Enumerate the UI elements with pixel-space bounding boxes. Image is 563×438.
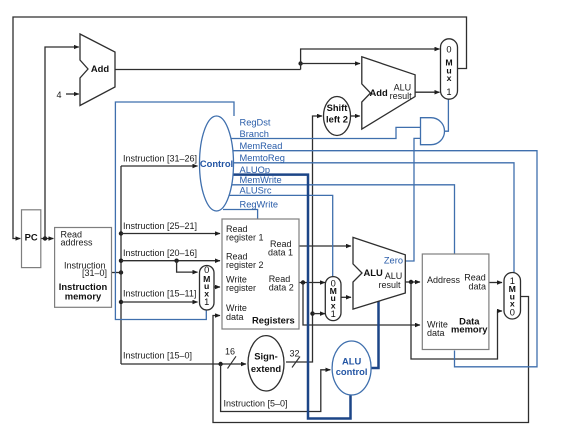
svg-text:result: result [390, 91, 413, 101]
wire RegDst mux output to Write register [214, 286, 220, 288]
wire ALUSrc mux output to ALU [342, 296, 352, 298]
mux M3 (RegDst) [200, 266, 215, 311]
svg-text:x: x [447, 73, 452, 83]
svg-text:1: 1 [446, 87, 451, 97]
wire Read data 1 to ALU input [299, 245, 351, 247]
adder Add (PC+4) [80, 34, 115, 106]
svg-text:Instruction [31–26]: Instruction [31–26] [123, 154, 197, 164]
svg-text:Instruction [15–11]: Instruction [15–11] [123, 289, 196, 299]
svg-text:0: 0 [446, 45, 451, 55]
svg-text:Registers: Registers [252, 315, 295, 326]
wire RegDst control loop to mux select [115, 102, 234, 320]
svg-text:32: 32 [290, 349, 300, 359]
wire Add output (PC+4) to branch adder top input [115, 69, 301, 71]
wire Read data 2 to ALUSrc mux input 0 [299, 282, 325, 284]
oval Sign-extend [248, 336, 284, 391]
wire ALU control output to ALU (thick) [371, 301, 379, 368]
svg-text:Branch: Branch [240, 129, 269, 139]
svg-text:data 1: data 1 [268, 248, 293, 258]
svg-text:Zero: Zero [384, 256, 403, 266]
wire ALUSrc control to mux select [228, 195, 333, 277]
node PC output junction [43, 236, 47, 240]
wire MemtoReg mux output back to Registers Write data [213, 297, 529, 423]
svg-text:result: result [379, 280, 402, 290]
box instruction memory [55, 228, 112, 308]
svg-text:Shift: Shift [327, 102, 348, 113]
wire branch adder result to top mux input 1 [415, 91, 439, 93]
svg-text:PC: PC [25, 232, 38, 243]
wire RegWrite control to Registers [223, 210, 258, 219]
svg-text:control: control [336, 366, 368, 377]
svg-text:left 2: left 2 [326, 114, 348, 125]
svg-text:Add: Add [91, 63, 109, 74]
box Data memory [422, 254, 489, 350]
wire ALUOp control to ALU control (thick) [231, 175, 351, 419]
wire Data memory Read data to MemtoReg mux input 1 [489, 282, 502, 284]
svg-text:Add: Add [370, 87, 388, 98]
svg-text:ALUSrc: ALUSrc [240, 186, 272, 196]
wire Instruction[25-21] to Read register 1 [121, 233, 220, 235]
svg-text:memory: memory [65, 291, 102, 302]
svg-text:extend: extend [251, 363, 281, 374]
svg-text:[31–0]: [31–0] [82, 268, 107, 278]
svg-text:address: address [61, 237, 94, 247]
node bus tap 20-16 [119, 259, 123, 263]
gate AND [421, 118, 445, 145]
svg-text:1: 1 [204, 297, 209, 307]
mux M4 (MemtoReg) [504, 273, 521, 320]
wire PC+4 to branch adder top input [301, 63, 360, 65]
oval ALU control [332, 341, 371, 395]
svg-text:memory: memory [451, 324, 488, 335]
svg-text:data: data [427, 328, 445, 338]
svg-text:Address: Address [427, 275, 461, 285]
wire Instruction[20-16] down to RegDst mux input 0 [177, 261, 198, 272]
node bus tap 25-21 [119, 231, 123, 235]
node instruction bus entry [119, 270, 123, 274]
wire ALU result around data memory to MemtoReg mux input 0 [411, 282, 502, 359]
svg-text:4: 4 [57, 90, 62, 100]
node bus tap 15-11 [119, 300, 123, 304]
slash 32-bit width mark [292, 357, 300, 368]
svg-text:ALUOp: ALUOp [240, 165, 271, 175]
wire Branch control to AND gate [229, 127, 420, 138]
svg-text:RegDst: RegDst [240, 118, 271, 128]
svg-text:Sign-: Sign- [254, 350, 277, 361]
wire sign-extend output up to shift-left-2 [286, 116, 322, 362]
node 20-16 branch junction [174, 259, 178, 263]
svg-text:RegWrite: RegWrite [240, 199, 279, 209]
svg-text:Instruction [25–21]: Instruction [25–21] [123, 221, 197, 231]
svg-text:MemtoReg: MemtoReg [240, 153, 285, 163]
wire MemRead control to Data memory [231, 151, 537, 367]
svg-text:register 2: register 2 [226, 260, 264, 270]
svg-text:Instruction [15–0]: Instruction [15–0] [123, 351, 192, 361]
svg-text:0: 0 [510, 307, 515, 317]
wire Read data 2 down to Data memory Write data [303, 283, 420, 326]
wire ALU result to Data memory Address [405, 281, 420, 283]
wire PC feedback loop from top mux output to PC input [13, 17, 467, 239]
slash 16-bit width mark [228, 356, 237, 368]
mux M1 (PC source) [441, 39, 458, 99]
oval Control [200, 116, 234, 211]
svg-text:MemRead: MemRead [240, 141, 283, 151]
wire instruction memory output to bus [112, 272, 122, 274]
wire Instruction[15-0] to sign extend [121, 363, 246, 365]
wire constant 4 into Add [66, 93, 79, 95]
wire MemtoReg control to rightmost mux select [231, 163, 514, 272]
svg-text:1: 1 [331, 309, 336, 319]
wire Instruction[5-0] to ALU control [221, 364, 331, 412]
wire Instruction[20-16] to Read register 2 [121, 260, 220, 262]
wire instruction bus vertical [120, 166, 122, 364]
node 15-0 junction [218, 362, 222, 366]
node sign-extend branch junction [310, 311, 314, 315]
svg-text:Control: Control [200, 158, 233, 169]
svg-text:Instruction [20–16]: Instruction [20–16] [123, 248, 197, 258]
wire PC output up to Add input [45, 47, 79, 239]
register PC [22, 210, 41, 268]
svg-text:ALU: ALU [364, 267, 383, 278]
svg-text:Instruction [5–0]: Instruction [5–0] [224, 399, 288, 409]
box Registers [222, 219, 299, 329]
oval Shift left 2 [324, 97, 351, 136]
svg-text:16: 16 [225, 346, 235, 356]
ALU main [353, 237, 405, 309]
node ALU result junction [409, 280, 413, 284]
svg-text:data 2: data 2 [269, 283, 294, 293]
svg-text:data: data [226, 312, 244, 322]
svg-text:MemWrite: MemWrite [240, 175, 282, 185]
mux M2 (ALUSrc) [325, 277, 341, 321]
wire Instruction[15-11] to RegDst mux input 1 [121, 301, 198, 303]
wire AND gate output to top mux select [444, 97, 449, 132]
wire sign-extend to ALUSrc mux input 1 [313, 313, 326, 315]
wire Zero output to AND gate [405, 138, 420, 261]
wire shift-left-2 output to branch adder lower input [351, 115, 360, 117]
wire Instruction[31-26] to Control [121, 165, 198, 167]
node PC+4 junction [298, 61, 302, 65]
adder Add (branch target) [362, 57, 415, 129]
svg-text:register 1: register 1 [226, 233, 264, 243]
svg-text:data: data [468, 282, 486, 292]
wire MemWrite control to Data memory [230, 185, 455, 254]
node Read data 2 junction [301, 280, 305, 284]
wire PC+4 up to top mux input 0 [301, 49, 440, 70]
wire PC output to instruction memory Read address [41, 238, 54, 240]
svg-text:register: register [226, 283, 256, 293]
